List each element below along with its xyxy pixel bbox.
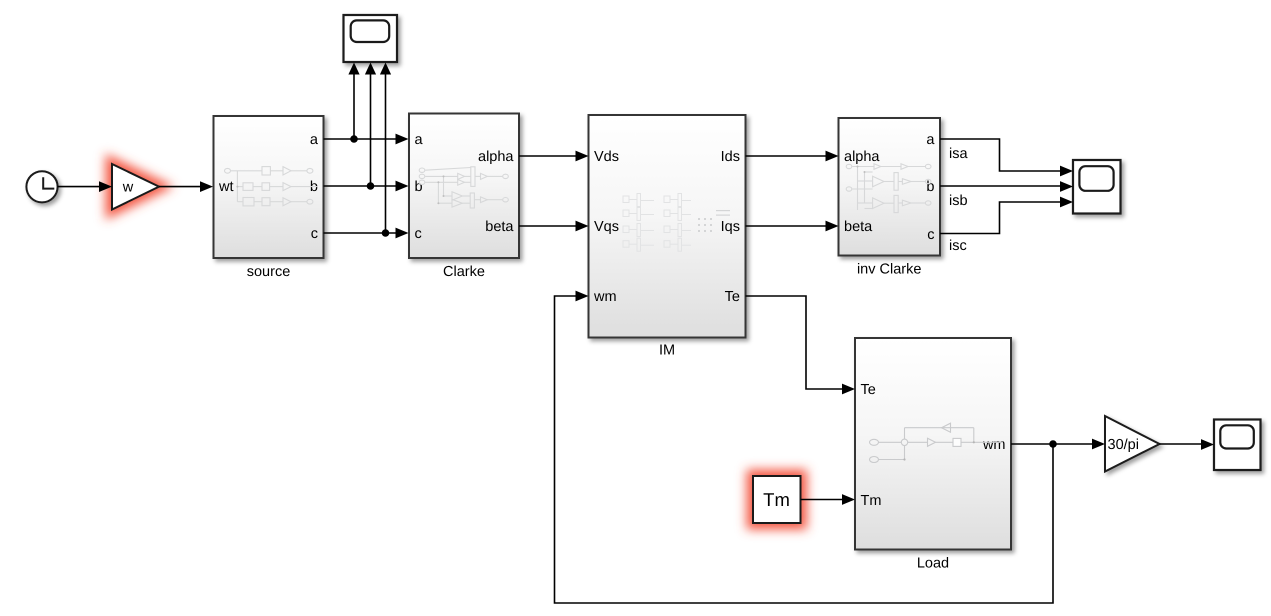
- svg-text:wm: wm: [982, 437, 1006, 453]
- wire branch c up to Scope_top: [385, 74, 387, 233]
- junction dot on wire a: [350, 135, 358, 143]
- Load block inner icon: [870, 423, 1004, 462]
- scope block Scope_bottom: [1214, 420, 1261, 471]
- wire gain w to source wt: [159, 186, 201, 188]
- svg-text:inv Clarke: inv Clarke: [857, 262, 921, 278]
- svg-text:Load: Load: [917, 556, 949, 572]
- wire Tm to Load Tm: [801, 499, 844, 501]
- wire inv Clarke c to Scope_right (isc): [940, 202, 1061, 234]
- IM block inner icon: [623, 194, 691, 252]
- wire source a to Clarke a: [324, 138, 397, 140]
- svg-text:isb: isb: [949, 193, 968, 209]
- wire inv Clarke b to Scope_right (isb): [940, 185, 1061, 187]
- svg-text:w: w: [122, 180, 134, 196]
- svg-text:c: c: [415, 226, 422, 242]
- Clarke block inner icon: [419, 167, 508, 208]
- wire clock to gain w: [58, 186, 100, 188]
- svg-text:c: c: [311, 226, 318, 242]
- wire inv Clarke a to Scope_right (isa): [940, 139, 1061, 171]
- svg-text:Tm: Tm: [861, 493, 882, 509]
- wire IM Iqs to inv Clarke beta: [746, 225, 827, 227]
- svg-text:a: a: [926, 132, 935, 148]
- svg-text:source: source: [247, 264, 291, 280]
- svg-text:wt: wt: [218, 179, 234, 195]
- svg-text:wm: wm: [593, 289, 617, 305]
- wire gain 30/pi to Scope_bottom: [1160, 443, 1203, 445]
- scope block Scope_top: [344, 15, 398, 62]
- svg-text:isa: isa: [949, 146, 968, 162]
- svg-text:beta: beta: [844, 219, 873, 235]
- wire Clarke alpha to IM Vds: [519, 155, 577, 157]
- svg-text:b: b: [415, 179, 423, 195]
- svg-text:Iqs: Iqs: [721, 219, 740, 235]
- svg-text:Vqs: Vqs: [594, 219, 619, 235]
- svg-text:c: c: [927, 227, 934, 243]
- svg-text:IM: IM: [659, 343, 675, 359]
- wire Clarke beta to IM Vqs: [519, 225, 577, 227]
- junction dot on wm wire: [1049, 440, 1057, 448]
- junction dot on wire b: [367, 182, 375, 190]
- wire IM Te to Load Te: [746, 296, 844, 389]
- wire source b to Clarke b: [324, 185, 397, 187]
- svg-text:Vds: Vds: [594, 149, 619, 165]
- subsystem block Load: [855, 338, 1011, 550]
- svg-text:30/pi: 30/pi: [1108, 437, 1139, 453]
- subsystem block IM: [589, 115, 746, 338]
- gain block w (highlighted): [112, 164, 159, 210]
- constant block Tm (highlighted): [753, 476, 801, 523]
- inv Clarke block inner icon: [846, 164, 931, 213]
- svg-text:a: a: [415, 132, 424, 148]
- wire Load wm to gain 30/pi: [1011, 443, 1093, 445]
- gain block 30/pi: [1105, 416, 1160, 472]
- svg-text:beta: beta: [485, 219, 514, 235]
- subsystem block Clarke: [409, 114, 519, 259]
- svg-text:Clarke: Clarke: [443, 264, 485, 280]
- scope block Scope_right: [1073, 160, 1121, 214]
- svg-text:Tm: Tm: [763, 489, 790, 510]
- wire source c to Clarke c: [324, 232, 397, 234]
- svg-text:a: a: [310, 132, 319, 148]
- clock block: [26, 171, 57, 202]
- subsystem block source: [214, 116, 324, 258]
- feedback wire wm to IM wm: [555, 296, 1054, 603]
- junction dot on wire c: [382, 229, 390, 237]
- subsystem block invClarke: [839, 118, 941, 256]
- svg-text:Te: Te: [861, 382, 876, 398]
- svg-text:alpha: alpha: [844, 149, 880, 165]
- svg-text:Te: Te: [725, 289, 740, 305]
- svg-text:Ids: Ids: [721, 149, 740, 165]
- svg-text:isc: isc: [949, 238, 967, 254]
- wire IM Ids to inv Clarke alpha: [746, 155, 827, 157]
- wire branch a up to Scope_top: [353, 74, 355, 139]
- svg-text:alpha: alpha: [478, 149, 514, 165]
- source block inner icon: [225, 167, 319, 206]
- wire branch b up to Scope_top: [370, 74, 372, 186]
